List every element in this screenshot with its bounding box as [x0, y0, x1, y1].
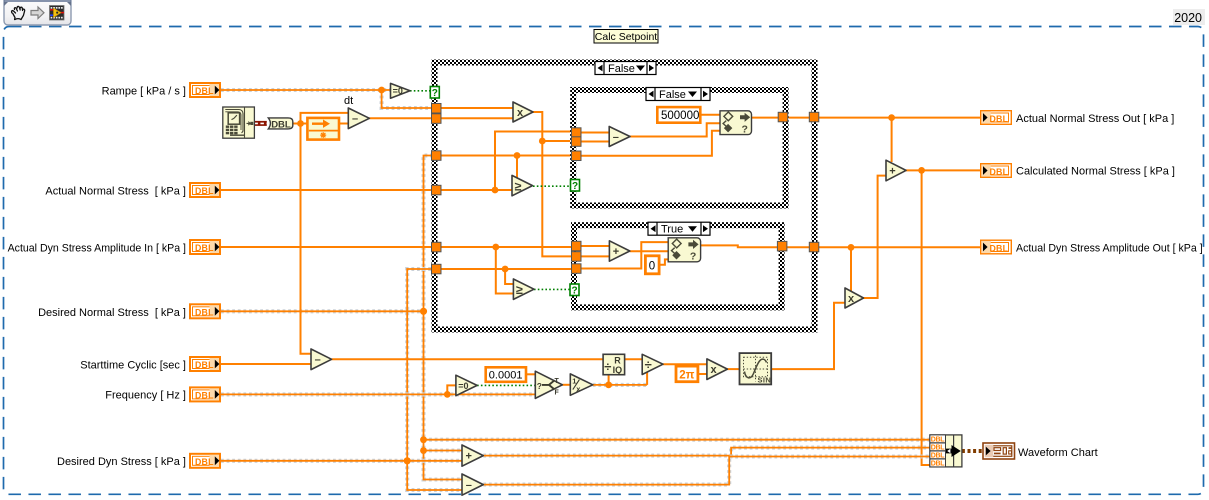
- wire case2 add out to in-range x: [630, 250, 668, 252]
- wire dt subtract out to tunnel: [369, 117, 432, 119]
- svg-text:–: –: [315, 354, 321, 366]
- wire branch down to add2 top: [891, 118, 893, 162]
- inner case structure 1 border: [573, 90, 785, 206]
- wire Starttime Cyclic to subtract: [221, 363, 311, 365]
- tunnel case1 sub top: [572, 128, 582, 138]
- constant 500000: [657, 107, 700, 123]
- wire dynamic data to waveform chart: [962, 449, 983, 453]
- wire reciprocal out (selected) to divide bottom: [593, 383, 647, 387]
- node divide: [642, 354, 663, 374]
- tunnel case2 add top: [572, 241, 582, 251]
- tunnel case2 upper limit: [572, 264, 582, 274]
- wire time DBL down to subtract top: [301, 124, 312, 354]
- tunnel case1 lower limit: [572, 151, 582, 161]
- svg-text:DBL: DBL: [931, 437, 946, 444]
- wire Desired Dyn inside: tunnel to inner tunnel and GE2 top: [441, 269, 572, 284]
- node dt subtract: [348, 108, 369, 129]
- svg-text:DBL: DBL: [195, 390, 214, 400]
- tunnel case2 add bottom: [572, 252, 582, 262]
- wire elapsed subtract out to quotient-remainder: [332, 358, 603, 360]
- node greater-or-equal GE2: [513, 279, 534, 299]
- wire reciprocal up into divide: [646, 372, 648, 385]
- svg-text:–: –: [352, 113, 358, 125]
- wire 500000 to in-range upper: [700, 114, 720, 116]
- svg-text:DBL: DBL: [195, 186, 214, 196]
- svg-text:500000: 500000: [661, 110, 699, 122]
- tunnel case2 out: [777, 241, 787, 251]
- svg-text:DBL: DBL: [931, 445, 946, 452]
- svg-text:2020: 2020: [1174, 11, 1202, 25]
- wire sine out to multiply x3: [771, 303, 845, 369]
- svg-text:Actual Normal Stress Out [ kPa: Actual Normal Stress Out [ kPa ]: [1016, 113, 1174, 125]
- wire Frequency (selected) to select f input: [221, 392, 535, 396]
- svg-text:F: F: [555, 390, 560, 397]
- node reciprocal 1/x: [570, 374, 593, 395]
- wire feedback node out to dt subtract bottom: [339, 123, 348, 125]
- wire Frequency branch up to =0: [447, 385, 456, 394]
- wire Actual Normal Stress to tunnel: [221, 189, 432, 191]
- wire 0 constant to in-range lower: [659, 259, 668, 264]
- indicator terminal Waveform Chart: [983, 443, 1015, 459]
- svg-text:T: T: [555, 378, 560, 385]
- node elapsed subtract: [311, 349, 332, 370]
- wire period stub up into QR y input: [608, 375, 610, 385]
- svg-text:DBL: DBL: [195, 457, 214, 467]
- svg-text:Frequency [ Hz ]: Frequency [ Hz ]: [105, 390, 186, 402]
- svg-text:+: +: [889, 165, 895, 177]
- svg-text:dt: dt: [344, 95, 353, 107]
- svg-text:0: 0: [649, 261, 655, 273]
- wire timestamp GetDateTime to ToDBL: [254, 121, 266, 126]
- svg-text:x: x: [848, 293, 855, 305]
- inner case 2 selector label True: [648, 222, 710, 236]
- selector tunnel case1: [571, 180, 580, 193]
- wire case2 output to indicator: [701, 245, 980, 247]
- svg-text:DBL: DBL: [195, 86, 214, 96]
- node subtract case1: [609, 127, 630, 147]
- indicator terminal Calculated Normal DBL: [981, 164, 1012, 178]
- svg-text:DBL: DBL: [271, 119, 291, 130]
- control terminal Frequency DBL: [190, 387, 220, 401]
- svg-text:Actual Dyn Stress Amplitude Ou: Actual Dyn Stress Amplitude Out [ kPa ]: [1016, 243, 1203, 255]
- wire case1 subtract out to in-range x: [630, 123, 720, 136]
- svg-text:DBL: DBL: [195, 360, 214, 370]
- node multiply x3: [845, 288, 864, 308]
- svg-text:÷: ÷: [645, 357, 652, 372]
- wire desired diff (selected) to bundle row3: [483, 457, 930, 485]
- selector tunnel outer case: [430, 87, 439, 100]
- constant 2pi: [676, 366, 698, 382]
- toolbar run-arrow icon: [31, 7, 44, 19]
- svg-text:DBL: DBL: [931, 453, 946, 460]
- node multiply x1: [513, 102, 533, 122]
- wire boolean =0 to outer case selector: [410, 90, 431, 92]
- svg-text:DBL: DBL: [990, 114, 1009, 124]
- selector tunnel case2: [570, 284, 579, 297]
- indicator terminal Actual Normal Out DBL: [981, 111, 1012, 125]
- wire tunnels to multiply x1: [441, 108, 513, 118]
- svg-text:2π: 2π: [679, 369, 694, 381]
- svg-text:Calc Setpoint: Calc Setpoint: [595, 31, 658, 43]
- node select: [535, 371, 562, 398]
- node equal-zero 2: [456, 375, 477, 396]
- tunnel Desired Normal in: [432, 151, 442, 161]
- svg-text:=0: =0: [393, 86, 403, 96]
- indicator terminal Actual Dyn Out DBL: [981, 240, 1012, 254]
- svg-text:DBL: DBL: [195, 243, 214, 253]
- wire case2 tunnel3 to in-range upper: [581, 242, 669, 268]
- inner case structure 2 border: [574, 225, 782, 307]
- svg-text:x: x: [711, 364, 718, 376]
- wire case2 internal: tunnels to add: [581, 246, 610, 256]
- svg-text:0.0001: 0.0001: [489, 370, 523, 382]
- svg-text:≥: ≥: [516, 283, 523, 297]
- outer case structure border: [435, 63, 815, 330]
- svg-text:Desired Normal Stress [ kPa ]: Desired Normal Stress [ kPa ]: [38, 307, 186, 319]
- node multiply x2: [707, 359, 728, 380]
- label Calc Setpoint: [594, 30, 658, 44]
- svg-text:=0: =0: [458, 381, 468, 391]
- label 2020: [1173, 9, 1205, 25]
- wire Rampe (selected) terminal to =0 and down to tunnel: [221, 90, 432, 108]
- toolbar VI icon: [50, 6, 65, 21]
- wire Desired Normal inside: tunnel to inner tunnel and GE1 top: [441, 156, 572, 180]
- toolbar pan-hand icon: [12, 6, 25, 19]
- svg-text:?: ?: [690, 250, 696, 262]
- toolbar box top-left: [4, 0, 71, 25]
- svg-text:–: –: [466, 480, 472, 492]
- svg-text:Waveform Chart: Waveform Chart: [1018, 447, 1098, 459]
- svg-text:Actual Dyn Stress Amplitude In: Actual Dyn Stress Amplitude In [ kPa ]: [8, 243, 186, 255]
- svg-text:+: +: [466, 451, 472, 463]
- control terminal Rampe DBL: [190, 83, 220, 97]
- tunnel Actual Dyn in: [432, 242, 442, 252]
- control terminal Actual Normal DBL: [190, 183, 220, 197]
- node feedback: [307, 118, 339, 140]
- svg-text:x: x: [517, 107, 524, 119]
- wire multiply x3 out up to add2 bottom: [864, 176, 887, 298]
- wire 0.0001 to select t input: [526, 373, 535, 375]
- node junction dots: [297, 87, 925, 465]
- svg-text:?: ?: [537, 381, 542, 391]
- wire case1 internal: tunnels to subtract: [581, 133, 610, 142]
- svg-text:?: ?: [571, 286, 577, 297]
- wire add2 out to Calculated indicator and down to bundle: [906, 170, 980, 465]
- wire boolean GE2 to inner case 2 selector: [534, 288, 570, 290]
- wire 2pi to multiply x2: [698, 373, 707, 375]
- wire boolean GE1 to inner case 1 selector: [533, 185, 570, 187]
- tunnel outer case2 out: [809, 242, 819, 252]
- control terminal Desired Dyn DBL: [190, 454, 220, 468]
- wire divide out to multiply x2: [663, 363, 707, 365]
- svg-text:?: ?: [432, 88, 438, 99]
- wire Actual Dyn In to tunnel: [221, 246, 432, 248]
- node in-range-coerce 1: [720, 111, 752, 136]
- control terminal Actual Dyn In DBL: [190, 240, 220, 254]
- svg-text:Rampe [ kPa / s ]: Rampe [ kPa / s ]: [102, 86, 186, 98]
- svg-text:–: –: [613, 131, 619, 143]
- svg-text:DBL: DBL: [195, 307, 214, 317]
- svg-text:DBL: DBL: [990, 243, 1009, 253]
- constant 0.0001: [486, 367, 526, 382]
- tunnel Actual Normal in: [432, 185, 442, 195]
- wire Actual Normal inside: tunnel to GE1 bottom and branch up to inner tunnel: [441, 132, 572, 191]
- svg-text:False: False: [659, 89, 686, 101]
- svg-text:?: ?: [572, 181, 578, 192]
- node sine: [740, 353, 772, 384]
- svg-text:Calculated Normal Stress [ kPa: Calculated Normal Stress [ kPa ]: [1016, 166, 1175, 178]
- node in-range-coerce 2: [668, 238, 700, 263]
- control terminal Desired Normal DBL: [190, 304, 220, 318]
- node greater-or-equal GE1: [512, 175, 533, 195]
- svg-text:SIN: SIN: [758, 375, 772, 384]
- node add2 calculated: [886, 160, 906, 181]
- svg-text:?: ?: [742, 123, 748, 135]
- svg-text:DBL: DBL: [931, 461, 946, 468]
- svg-text:Desired Dyn Stress [ kPa ]: Desired Dyn Stress [ kPa ]: [57, 456, 186, 468]
- svg-text:≥: ≥: [515, 179, 522, 193]
- svg-text:True: True: [661, 224, 683, 236]
- control terminal Starttime DBL: [190, 357, 220, 371]
- node quotient-remainder: [603, 354, 625, 375]
- svg-text:False: False: [608, 63, 635, 75]
- wire QR remainder out to divide: [625, 358, 643, 360]
- wire amplitude down to multiply x3 top: [850, 247, 852, 292]
- node merge-signals bundle: [930, 435, 962, 468]
- tunnel Rampe in: [432, 104, 442, 114]
- svg-text:÷: ÷: [604, 359, 611, 374]
- node add3 desired sum: [462, 445, 483, 466]
- wire case1 tunnel3 to in-range lower: [581, 131, 720, 156]
- inner case 1 selector label False: [646, 88, 710, 102]
- wire Desired Dyn (selected) with branches: [221, 269, 462, 490]
- wire multiply x1 output down to inner cases: [533, 112, 572, 256]
- wire desired sum (selected) to bundle row2: [483, 448, 930, 456]
- node subtract desired diff: [462, 474, 483, 495]
- outer case selector label False: [595, 62, 656, 76]
- svg-text:IQ: IQ: [613, 365, 623, 375]
- tunnel Desired Dyn in: [432, 264, 442, 274]
- tunnel case1 out: [778, 112, 788, 122]
- wire Desired Normal (selected) with branches: [221, 156, 930, 480]
- wire case1 output to indicator: [752, 117, 981, 119]
- wire multiply x2 out to sine: [727, 368, 739, 370]
- svg-text:Actual Normal Stress [ kPa ]: Actual Normal Stress [ kPa ]: [45, 186, 186, 198]
- tunnel case1 sub bottom: [572, 137, 582, 147]
- svg-text:DBL: DBL: [990, 167, 1009, 177]
- tunnel outer case1 out: [809, 112, 819, 122]
- node equal-zero 1: [391, 83, 411, 98]
- wire boolean =0 to select s input: [477, 384, 535, 386]
- node get-date-time: [223, 107, 255, 138]
- wire Actual Dyn In inside: to inner tunnel and GE2 bottom: [441, 247, 572, 294]
- constant 0: [645, 256, 659, 274]
- node to-double DBL: [268, 118, 293, 130]
- wire select out to reciprocal: [562, 384, 570, 386]
- node add case2: [609, 241, 629, 261]
- wire ToDBL out to feedback node and branch to dt subtract top: [293, 113, 349, 124]
- svg-text:Starttime Cyclic [sec ]: Starttime Cyclic [sec ]: [80, 360, 186, 372]
- svg-text:+: +: [613, 246, 619, 258]
- tunnel dt in: [432, 114, 442, 124]
